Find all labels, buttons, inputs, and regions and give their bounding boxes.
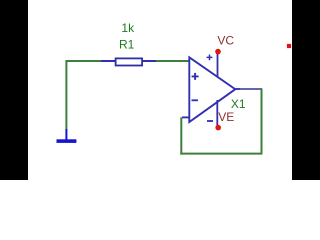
svg-text:R1: R1 bbox=[119, 38, 135, 52]
resistor R1 bbox=[101, 58, 156, 65]
wire input horizontal bbox=[66, 60, 189, 62]
VE supply pin bbox=[207, 100, 221, 130]
svg-text:VC: VC bbox=[217, 34, 234, 48]
op-amp X1 bbox=[189, 57, 235, 122]
svg-text:1k: 1k bbox=[121, 21, 135, 35]
ground bbox=[57, 129, 77, 143]
VC supply pin bbox=[207, 49, 221, 77]
wire feedback left vertical bbox=[180, 117, 182, 154]
op-amp minus input stub bbox=[182, 116, 189, 118]
wire feedback right vertical bbox=[261, 89, 263, 154]
wire output to feedback bbox=[240, 88, 262, 90]
wire feedback bottom horizontal bbox=[180, 153, 262, 155]
svg-text:X1: X1 bbox=[231, 97, 246, 111]
node marker right bbox=[287, 44, 291, 48]
wire to ground vertical bbox=[65, 60, 67, 130]
svg-text:VE: VE bbox=[218, 110, 234, 124]
op-amp output stub bbox=[235, 88, 241, 90]
